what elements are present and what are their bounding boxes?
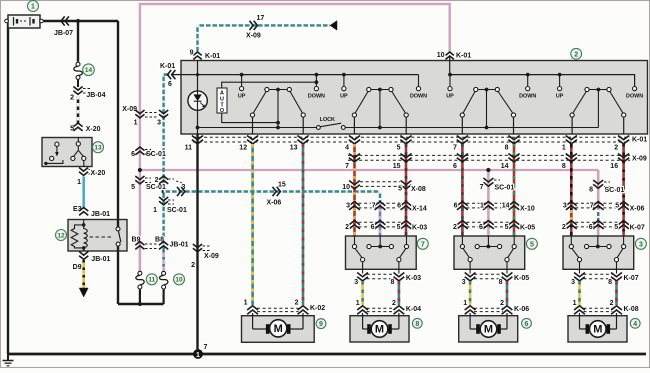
svg-text:X-09: X-09 bbox=[122, 106, 137, 113]
svg-text:4: 4 bbox=[633, 321, 637, 328]
svg-text:2: 2 bbox=[392, 300, 396, 307]
svg-text:9: 9 bbox=[319, 321, 323, 328]
svg-text:8: 8 bbox=[608, 279, 612, 286]
svg-text:K-02: K-02 bbox=[310, 305, 325, 312]
svg-text:1: 1 bbox=[244, 299, 248, 306]
svg-text:X-06: X-06 bbox=[267, 200, 282, 207]
svg-text:15: 15 bbox=[393, 163, 401, 170]
svg-text:K-03: K-03 bbox=[406, 275, 421, 282]
svg-text:6: 6 bbox=[479, 224, 483, 231]
svg-text:1: 1 bbox=[31, 4, 35, 11]
svg-text:14: 14 bbox=[502, 203, 510, 210]
svg-text:7: 7 bbox=[453, 145, 457, 152]
svg-text:M: M bbox=[375, 323, 384, 335]
svg-text:15: 15 bbox=[278, 182, 286, 189]
svg-text:8: 8 bbox=[390, 279, 394, 286]
svg-text:6: 6 bbox=[525, 321, 529, 328]
svg-text:K-05: K-05 bbox=[520, 225, 535, 232]
svg-text:5: 5 bbox=[615, 203, 619, 210]
svg-text:8: 8 bbox=[415, 321, 419, 328]
svg-text:12: 12 bbox=[57, 232, 65, 239]
svg-text:8: 8 bbox=[562, 163, 566, 170]
svg-text:D9: D9 bbox=[73, 264, 82, 271]
svg-text:2: 2 bbox=[70, 95, 74, 102]
svg-text:2: 2 bbox=[610, 300, 614, 307]
svg-text:7: 7 bbox=[345, 163, 349, 170]
svg-text:7: 7 bbox=[421, 241, 425, 248]
svg-text:13: 13 bbox=[290, 145, 298, 152]
svg-text:6: 6 bbox=[371, 224, 375, 231]
svg-text:X-06: X-06 bbox=[630, 206, 645, 213]
svg-text:6: 6 bbox=[397, 203, 401, 210]
svg-text:K-01: K-01 bbox=[456, 53, 471, 60]
svg-text:14: 14 bbox=[85, 67, 93, 74]
svg-text:13: 13 bbox=[94, 145, 102, 152]
svg-text:K-08: K-08 bbox=[624, 306, 639, 313]
svg-text:6: 6 bbox=[131, 151, 135, 158]
svg-text:3: 3 bbox=[157, 120, 161, 127]
svg-text:6: 6 bbox=[453, 163, 457, 170]
svg-text:5: 5 bbox=[398, 186, 402, 193]
svg-text:10: 10 bbox=[437, 52, 445, 59]
svg-text:K-04: K-04 bbox=[406, 306, 421, 313]
svg-text:SC-01: SC-01 bbox=[167, 207, 187, 214]
svg-text:2: 2 bbox=[614, 145, 618, 152]
svg-text:7: 7 bbox=[204, 344, 208, 351]
svg-text:3: 3 bbox=[346, 203, 350, 210]
svg-text:6: 6 bbox=[168, 81, 172, 88]
svg-text:SC-01: SC-01 bbox=[146, 184, 166, 191]
svg-text:M: M bbox=[593, 323, 602, 335]
svg-text:X-20: X-20 bbox=[91, 170, 106, 177]
svg-text:K-03: K-03 bbox=[412, 225, 427, 232]
svg-text:3: 3 bbox=[571, 279, 575, 286]
svg-text:7: 7 bbox=[590, 203, 594, 210]
svg-text:1: 1 bbox=[463, 300, 467, 307]
svg-text:2: 2 bbox=[345, 224, 349, 231]
svg-text:1: 1 bbox=[562, 145, 566, 152]
svg-text:11: 11 bbox=[185, 145, 193, 152]
svg-text:X-10: X-10 bbox=[520, 206, 535, 213]
svg-text:5: 5 bbox=[397, 145, 401, 152]
svg-text:K-01: K-01 bbox=[160, 63, 175, 70]
svg-text:1: 1 bbox=[356, 300, 360, 307]
svg-text:9: 9 bbox=[190, 50, 194, 57]
svg-text:K-07: K-07 bbox=[624, 275, 639, 282]
svg-text:1: 1 bbox=[153, 207, 157, 214]
svg-text:SC-01: SC-01 bbox=[146, 151, 166, 158]
svg-text:8: 8 bbox=[499, 279, 503, 286]
svg-text:K-07: K-07 bbox=[630, 225, 645, 232]
svg-text:2: 2 bbox=[191, 262, 195, 269]
svg-text:11: 11 bbox=[148, 277, 155, 284]
svg-text:X-08: X-08 bbox=[411, 186, 426, 193]
svg-text:X-09: X-09 bbox=[204, 253, 219, 260]
svg-text:12: 12 bbox=[239, 145, 247, 152]
svg-text:2: 2 bbox=[453, 224, 457, 231]
svg-text:5: 5 bbox=[614, 224, 618, 231]
svg-text:X-14: X-14 bbox=[412, 206, 427, 213]
svg-text:3: 3 bbox=[462, 279, 466, 286]
svg-text:3: 3 bbox=[563, 203, 567, 210]
svg-text:JB-01: JB-01 bbox=[91, 256, 110, 263]
svg-text:5: 5 bbox=[530, 241, 534, 248]
svg-text:2: 2 bbox=[562, 224, 566, 231]
svg-text:2: 2 bbox=[500, 300, 504, 307]
svg-text:2: 2 bbox=[574, 51, 578, 58]
svg-text:K-01: K-01 bbox=[205, 53, 220, 60]
svg-text:3: 3 bbox=[639, 241, 643, 248]
svg-text:1: 1 bbox=[134, 120, 138, 127]
svg-text:X-20: X-20 bbox=[86, 126, 101, 133]
svg-text:1: 1 bbox=[77, 179, 81, 186]
svg-text:2: 2 bbox=[295, 299, 299, 306]
svg-text:K-06: K-06 bbox=[514, 306, 529, 313]
svg-text:10: 10 bbox=[342, 184, 350, 191]
svg-text:SC-01: SC-01 bbox=[605, 187, 625, 194]
svg-text:X-09: X-09 bbox=[632, 156, 647, 163]
svg-text:UP: UP bbox=[340, 94, 348, 100]
svg-text:10: 10 bbox=[175, 277, 183, 284]
svg-text:8: 8 bbox=[505, 145, 509, 152]
svg-text:8: 8 bbox=[589, 187, 593, 194]
svg-text:M: M bbox=[274, 323, 283, 335]
svg-text:7: 7 bbox=[480, 184, 484, 191]
svg-text:JB-04: JB-04 bbox=[86, 92, 105, 99]
svg-text:5: 5 bbox=[505, 224, 509, 231]
svg-text:16: 16 bbox=[610, 163, 618, 170]
svg-text:UP: UP bbox=[446, 94, 454, 100]
svg-text:K-01: K-01 bbox=[632, 137, 647, 144]
svg-text:5: 5 bbox=[397, 224, 401, 231]
svg-text:6: 6 bbox=[454, 203, 458, 210]
svg-text:14: 14 bbox=[501, 163, 509, 170]
svg-text:JB-01: JB-01 bbox=[91, 211, 110, 218]
svg-text:DOWN: DOWN bbox=[626, 94, 643, 100]
svg-text:UP: UP bbox=[556, 94, 564, 100]
svg-text:K-05: K-05 bbox=[514, 275, 529, 282]
svg-text:2: 2 bbox=[155, 177, 159, 184]
svg-text:6: 6 bbox=[589, 224, 593, 231]
svg-text:DOWN: DOWN bbox=[410, 94, 427, 100]
svg-text:SC-01: SC-01 bbox=[495, 185, 515, 192]
svg-text:1: 1 bbox=[573, 300, 577, 307]
svg-text:7: 7 bbox=[372, 203, 376, 210]
svg-text:M: M bbox=[484, 323, 493, 335]
svg-text:1: 1 bbox=[480, 203, 484, 210]
svg-text:UP: UP bbox=[238, 94, 246, 100]
svg-text:DOWN: DOWN bbox=[519, 94, 536, 100]
svg-text:LOCK: LOCK bbox=[320, 117, 335, 123]
svg-text:JB-01: JB-01 bbox=[170, 242, 189, 249]
svg-text:4: 4 bbox=[345, 145, 349, 152]
svg-text:5: 5 bbox=[131, 184, 135, 191]
svg-text:17: 17 bbox=[257, 15, 265, 22]
svg-text:X-09: X-09 bbox=[246, 33, 261, 40]
svg-text:1: 1 bbox=[196, 352, 200, 359]
svg-text:JB-07: JB-07 bbox=[54, 30, 73, 37]
svg-text:DOWN: DOWN bbox=[308, 94, 325, 100]
svg-text:3: 3 bbox=[354, 279, 358, 286]
